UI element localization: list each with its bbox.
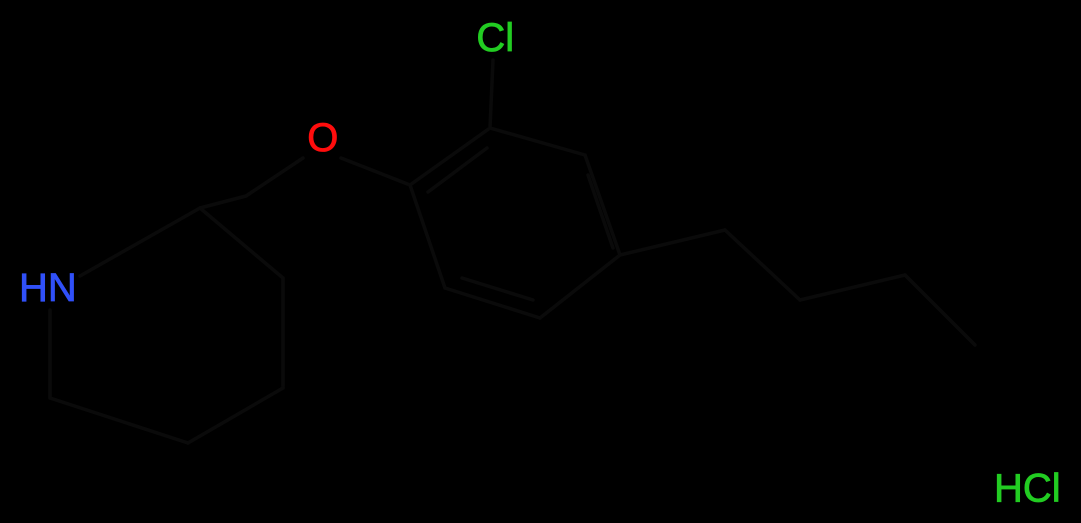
- wire piperidine bond C6-N: [48, 310, 52, 398]
- wire piperidine bond C3-C4: [281, 278, 285, 388]
- svg-text:Cl: Cl: [476, 16, 514, 60]
- wire piperidine bond C5-C6: [50, 398, 188, 443]
- wire benzene bond C6-C1: [410, 185, 445, 288]
- wire piperidine bond C2-C3: [200, 208, 283, 278]
- wire chain bond C3-C4: [905, 275, 975, 345]
- wire piperidine bond C4-C5: [188, 388, 283, 443]
- wire bond C4aryl-chain C1: [620, 230, 725, 255]
- wire chain bond C2-C3: [800, 275, 905, 300]
- wire benzene bond C2-C3: [490, 128, 585, 155]
- wire bond C2aryl-Cl: [490, 60, 493, 128]
- wire bond CH2-O: [246, 158, 303, 196]
- wire benzene bond C5-C6: [445, 288, 540, 318]
- wire chain bond C1-C2: [725, 230, 800, 300]
- wire benzene inner double bond C1-C2: [428, 148, 487, 192]
- wire bond O-C1aryl: [341, 158, 410, 185]
- wire benzene inner double bond C5-C6: [462, 278, 533, 300]
- svg-text:HN: HN: [19, 266, 77, 310]
- wire benzene inner double bond C3-C4: [588, 175, 613, 248]
- wire benzene bond C1-C2: [410, 128, 490, 185]
- wire benzene bond C4-C5: [540, 255, 620, 318]
- svg-text:O: O: [307, 116, 338, 160]
- wire bond C2pip-CH2: [200, 196, 246, 208]
- svg-text:HCl: HCl: [994, 467, 1061, 511]
- wire piperidine bond N-C2: [80, 208, 200, 276]
- wire benzene bond C3-C4: [585, 155, 620, 255]
